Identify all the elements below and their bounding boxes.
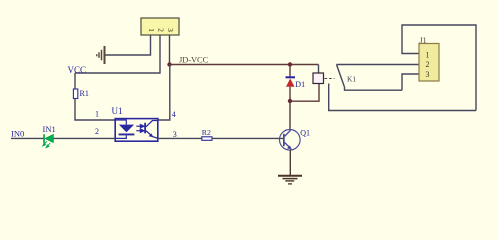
svg-text:1: 1 (147, 28, 155, 32)
relay actuator dashed link (325, 78, 335, 80)
svg-text:4: 4 (172, 110, 176, 119)
svg-text:R2: R2 (202, 128, 211, 137)
svg-text:U1: U1 (112, 106, 123, 116)
svg-text:3: 3 (173, 130, 177, 139)
wire junction to D1 cathode (289, 65, 291, 77)
ground (top left, rotated) (97, 46, 105, 64)
svg-text:IN1: IN1 (43, 124, 56, 134)
relay coil K1 (313, 73, 324, 84)
optocoupler U1 (115, 119, 158, 142)
svg-text:Q1: Q1 (300, 128, 310, 137)
wire loop to J1 pin1 (402, 25, 476, 111)
LED IN1 (43, 134, 54, 147)
wire NO contact to J1 pin3 corner (345, 87, 403, 91)
junction JD-VCC (167, 62, 171, 66)
svg-text:VCC: VCC (68, 65, 87, 75)
svg-text:K1: K1 (347, 74, 356, 83)
wire P1 pin2 to VCC (75, 35, 160, 73)
wire contact common to J1 pin2 (337, 64, 420, 66)
svg-text:2: 2 (426, 60, 430, 69)
svg-text:2: 2 (156, 28, 164, 32)
svg-text:D1: D1 (295, 80, 305, 89)
wire NO contact to J1 pin3 (402, 74, 419, 90)
wire R2 to Q1 base (212, 137, 283, 139)
junction Q1 collector node (288, 99, 292, 103)
transistor Q1 (280, 130, 301, 151)
svg-text:3: 3 (426, 70, 430, 79)
connector P1 body (3-pin header, top) (141, 18, 179, 35)
svg-text:1: 1 (95, 109, 99, 118)
wire VCC to R1 (74, 73, 76, 89)
wire JD-VCC down to U1 pin4 (158, 65, 170, 121)
wire Q1 emitter to ground (289, 150, 291, 176)
junction D1 anode rail (288, 62, 292, 66)
svg-text:IN0: IN0 (11, 128, 24, 138)
wire U1 pin3 to R2 (158, 137, 202, 139)
wire IN1 to U1 pin2 (53, 137, 115, 139)
connector J1 body (419, 44, 439, 82)
svg-text:JD-VCC: JD-VCC (179, 55, 209, 65)
wire P1 pin1 to ground (106, 35, 151, 55)
wire junction to relay coil bottom (290, 84, 319, 102)
svg-text:3: 3 (166, 28, 174, 32)
wire R1 to U1 pin1 (75, 99, 115, 121)
relay contact arm (337, 65, 345, 87)
wire JD-VCC rail to relay coil (170, 64, 319, 66)
svg-text:1: 1 (426, 51, 430, 60)
wire P1 pin3 to JD-VCC junction (169, 35, 171, 65)
resistor R1 (73, 89, 77, 99)
wire rail to relay coil top (318, 65, 320, 74)
svg-text:2: 2 (95, 127, 99, 136)
resistor R2 (202, 137, 212, 141)
wire NC contact to loop (329, 84, 476, 111)
svg-text:R1: R1 (80, 89, 89, 98)
wire D1 anode to collector junction (289, 87, 291, 101)
diode D1 (286, 76, 296, 87)
ground (below Q1) (278, 176, 302, 184)
wire collector junction to Q1 (289, 101, 291, 130)
wire IN0 to IN1 anode (11, 137, 44, 139)
